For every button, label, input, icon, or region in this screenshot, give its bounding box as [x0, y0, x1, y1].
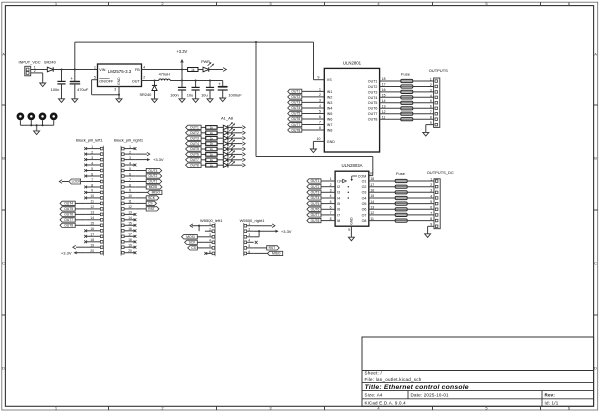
svg-text:9: 9 — [348, 228, 350, 232]
svg-text:Black_pill_left1: Black_pill_left1 — [76, 138, 103, 143]
svg-text:Sheet: /: Sheet: / — [365, 371, 383, 376]
svg-text:1: 1 — [330, 177, 332, 181]
svg-text:I6: I6 — [337, 208, 340, 212]
svg-text:4: 4 — [248, 239, 250, 243]
svg-text:7: 7 — [91, 178, 93, 182]
svg-text:1k: 1k — [210, 163, 214, 167]
svg-text:OUT: OUT — [132, 80, 141, 84]
svg-text:2: 2 — [209, 228, 211, 232]
svg-text:IN7: IN7 — [327, 123, 333, 127]
svg-text:OUT7: OUT7 — [311, 213, 320, 217]
svg-text:GND: GND — [117, 77, 121, 85]
svg-text:W5500_right1: W5500_right1 — [240, 218, 266, 223]
svg-text:100n: 100n — [170, 92, 179, 97]
svg-text:GND: GND — [349, 217, 353, 225]
svg-text:LOCK: LOCK — [72, 180, 82, 184]
svg-text:OUT8: OUT8 — [368, 118, 378, 122]
svg-text:Fuse: Fuse — [396, 171, 406, 176]
svg-text:1: 1 — [129, 145, 131, 149]
svg-text:8: 8 — [330, 217, 332, 221]
svg-text:1: 1 — [209, 222, 211, 226]
svg-text:1: 1 — [248, 222, 250, 226]
svg-text:18: 18 — [128, 238, 132, 242]
svg-text:2: 2 — [430, 83, 432, 87]
svg-text:17: 17 — [90, 233, 94, 237]
svg-text:6: 6 — [129, 172, 131, 176]
svg-text:2: 2 — [248, 228, 250, 232]
svg-text:4: 4 — [319, 104, 321, 108]
svg-text:1: 1 — [91, 145, 93, 149]
svg-text:8: 8 — [430, 116, 432, 120]
svg-text:10u: 10u — [187, 92, 194, 97]
svg-text:6: 6 — [330, 206, 332, 210]
svg-text:Fuse: Fuse — [401, 71, 411, 76]
svg-text:COM: COM — [358, 175, 366, 179]
svg-text:OUT1: OUT1 — [311, 179, 320, 183]
svg-text:O3: O3 — [362, 191, 367, 195]
svg-text:OUT6: OUT6 — [368, 107, 378, 111]
svg-text:VIN: VIN — [99, 68, 105, 72]
svg-text:I7: I7 — [337, 213, 340, 217]
svg-text:MOSI: MOSI — [186, 235, 195, 239]
svg-text:6: 6 — [430, 206, 432, 210]
svg-text:+3.3V: +3.3V — [153, 157, 164, 162]
svg-text:2: 2 — [330, 183, 332, 187]
svg-text:10u: 10u — [201, 92, 208, 97]
svg-text:Id: 1/1: Id: 1/1 — [545, 401, 559, 406]
svg-text:RST: RST — [269, 246, 276, 250]
svg-text:O7: O7 — [362, 213, 367, 217]
svg-text:8: 8 — [430, 217, 432, 221]
svg-text:OUT6: OUT6 — [190, 153, 199, 157]
svg-text:O2: O2 — [362, 185, 367, 189]
svg-text:3: 3 — [114, 88, 116, 92]
svg-text:6: 6 — [430, 105, 432, 109]
svg-text:SR240: SR240 — [139, 92, 152, 97]
svg-text:OUT2: OUT2 — [311, 185, 320, 189]
svg-text:6: 6 — [91, 172, 93, 176]
svg-text:I2: I2 — [337, 185, 340, 189]
svg-text:3: 3 — [91, 156, 93, 160]
svg-text:OUT8: OUT8 — [190, 164, 199, 168]
svg-text:100n: 100n — [51, 87, 60, 92]
svg-text:+3.3V: +3.3V — [176, 49, 187, 54]
svg-text:OUTPUTS: OUTPUTS — [429, 68, 448, 73]
svg-text:OUT3: OUT3 — [149, 169, 158, 173]
svg-text:C: C — [2, 260, 5, 265]
svg-text:1k: 1k — [210, 153, 214, 157]
svg-text:1k: 1k — [210, 158, 214, 162]
svg-text:15: 15 — [90, 222, 94, 226]
svg-text:2: 2 — [91, 150, 93, 154]
svg-text:15: 15 — [128, 222, 132, 226]
svg-text:4: 4 — [430, 94, 432, 98]
svg-text:6: 6 — [248, 250, 250, 254]
svg-text:8: 8 — [319, 126, 321, 130]
svg-text:O6: O6 — [362, 208, 367, 212]
svg-text:OUT1: OUT1 — [291, 90, 300, 94]
svg-text:5: 5 — [330, 200, 332, 204]
svg-text:17: 17 — [128, 233, 132, 237]
svg-text:4: 4 — [209, 239, 211, 243]
svg-text:OUT5: OUT5 — [291, 112, 300, 116]
svg-text:5: 5 — [319, 110, 321, 114]
svg-text:5: 5 — [430, 99, 432, 103]
svg-text:SCK: SCK — [148, 196, 156, 200]
svg-text:GND: GND — [327, 140, 335, 144]
svg-text:4: 4 — [129, 161, 131, 165]
svg-text:3: 3 — [248, 233, 250, 237]
svg-text:10: 10 — [128, 194, 132, 198]
svg-text:LM2575-3.3: LM2575-3.3 — [108, 69, 132, 74]
svg-text:1k: 1k — [210, 147, 214, 151]
svg-text:9: 9 — [91, 189, 93, 193]
svg-text:D: D — [2, 365, 5, 370]
svg-text:3: 3 — [319, 99, 321, 103]
svg-text:I4: I4 — [337, 196, 340, 200]
svg-text:18: 18 — [90, 238, 94, 242]
svg-text:I3: I3 — [337, 191, 340, 195]
svg-text:OUT5: OUT5 — [311, 202, 320, 206]
svg-text:14: 14 — [90, 216, 94, 220]
svg-text:OUT6: OUT6 — [311, 208, 320, 212]
svg-text:3: 3 — [430, 88, 432, 92]
svg-text:Rev:: Rev: — [545, 392, 556, 397]
svg-text:CS: CS — [148, 202, 153, 206]
svg-text:O1: O1 — [362, 179, 367, 183]
svg-text:OUT5: OUT5 — [64, 207, 73, 211]
svg-text:470uH: 470uH — [159, 72, 170, 76]
svg-text:OUT1: OUT1 — [190, 126, 199, 130]
svg-text:OUT4: OUT4 — [190, 142, 199, 146]
svg-text:OUT1: OUT1 — [368, 79, 378, 83]
svg-text:13: 13 — [90, 211, 94, 215]
svg-text:7: 7 — [430, 211, 432, 215]
svg-text:7: 7 — [430, 110, 432, 114]
svg-text:1: 1 — [94, 65, 96, 69]
svg-text:IN4: IN4 — [327, 106, 333, 110]
svg-text:Date: 2025-10-01: Date: 2025-10-01 — [411, 392, 450, 397]
svg-text:2: 2 — [319, 93, 321, 97]
svg-text:6: 6 — [319, 115, 321, 119]
svg-text:IN1: IN1 — [327, 90, 333, 94]
svg-text:2: 2 — [143, 75, 145, 79]
svg-text:OUT7: OUT7 — [291, 123, 300, 127]
svg-text:Black_pill_right1: Black_pill_right1 — [114, 138, 144, 143]
svg-text:OUT6: OUT6 — [291, 117, 300, 121]
svg-text:Title: Ethernet control consol: Title: Ethernet control console — [365, 384, 469, 391]
svg-text:5: 5 — [209, 244, 211, 248]
svg-text:7: 7 — [129, 178, 131, 182]
svg-text:3: 3 — [330, 189, 332, 193]
svg-text:IN2: IN2 — [327, 95, 333, 99]
svg-text:5: 5 — [91, 167, 93, 171]
svg-text:ULN2803A: ULN2803A — [341, 163, 362, 168]
svg-text:12: 12 — [128, 205, 132, 209]
svg-text:File: lan_outlet.kicad_sch: File: lan_outlet.kicad_sch — [365, 377, 422, 382]
svg-text:19: 19 — [90, 244, 94, 248]
svg-text:OUT8: OUT8 — [311, 219, 320, 223]
svg-text:Size: A4: Size: A4 — [365, 392, 383, 397]
svg-text:16: 16 — [90, 227, 94, 231]
svg-text:B: B — [594, 155, 597, 160]
svg-text:9: 9 — [318, 76, 320, 80]
svg-text:9: 9 — [129, 189, 131, 193]
svg-text:OUT7: OUT7 — [64, 218, 73, 222]
svg-text:KiCad E.D.A. 9.0.4: KiCad E.D.A. 9.0.4 — [365, 401, 407, 406]
svg-text:OUT5: OUT5 — [368, 101, 378, 105]
svg-text:IN5: IN5 — [327, 112, 333, 116]
svg-text:OUT4: OUT4 — [64, 202, 73, 206]
svg-text:IN6: IN6 — [327, 117, 333, 121]
svg-text:OUT2: OUT2 — [291, 95, 300, 99]
svg-text:OUT2: OUT2 — [368, 85, 378, 89]
svg-text:IN3: IN3 — [327, 101, 333, 105]
svg-text:I5: I5 — [337, 202, 340, 206]
svg-text:O8: O8 — [362, 219, 367, 223]
svg-text:W5500_left1: W5500_left1 — [200, 218, 223, 223]
svg-text:O5: O5 — [362, 202, 367, 206]
svg-text:3: 3 — [209, 233, 211, 237]
svg-text:+: + — [218, 82, 221, 87]
svg-text:B: B — [2, 155, 5, 160]
svg-text:MISO: MISO — [152, 191, 161, 195]
svg-text:1000uF: 1000uF — [228, 92, 242, 97]
svg-text:OUT1: OUT1 — [149, 180, 158, 184]
svg-text:VS: VS — [327, 78, 332, 82]
svg-text:A1_A8: A1_A8 — [221, 116, 234, 121]
svg-text:OUT8: OUT8 — [291, 128, 300, 132]
svg-text:OUT5: OUT5 — [190, 147, 199, 151]
svg-text:5: 5 — [430, 200, 432, 204]
svg-text:D: D — [594, 365, 597, 370]
svg-text:10: 10 — [369, 171, 373, 175]
svg-text:6: 6 — [209, 250, 211, 254]
svg-text:OUT7: OUT7 — [190, 158, 199, 162]
svg-text:7: 7 — [330, 211, 332, 215]
svg-text:11: 11 — [128, 200, 132, 204]
svg-text:12: 12 — [90, 205, 94, 209]
svg-text:470uF: 470uF — [77, 87, 89, 92]
svg-text:A: A — [2, 51, 5, 56]
svg-text:16: 16 — [128, 227, 132, 231]
svg-text:RST: RST — [148, 207, 155, 211]
svg-text:OUT4: OUT4 — [368, 96, 378, 100]
svg-text:OUT4: OUT4 — [291, 106, 300, 110]
svg-text:+3.3V: +3.3V — [281, 229, 292, 234]
svg-text:A: A — [594, 51, 597, 56]
svg-text:7: 7 — [319, 121, 321, 125]
svg-text:+3.3V: +3.3V — [61, 250, 72, 255]
svg-text:2: 2 — [34, 69, 36, 73]
svg-text:13: 13 — [128, 211, 132, 215]
svg-text:SCK: SCK — [189, 241, 197, 245]
svg-text:5: 5 — [94, 76, 96, 80]
svg-text:8: 8 — [129, 183, 131, 187]
svg-text:OUT3: OUT3 — [368, 90, 378, 94]
svg-text:11: 11 — [91, 200, 95, 204]
svg-text:20: 20 — [90, 249, 94, 253]
svg-text:1: 1 — [319, 88, 321, 92]
svg-text:2: 2 — [430, 183, 432, 187]
svg-text:20: 20 — [128, 249, 132, 253]
svg-text:2: 2 — [129, 150, 131, 154]
svg-text:1k: 1k — [191, 68, 195, 72]
svg-text:1k: 1k — [210, 142, 214, 146]
svg-text:+: + — [70, 76, 73, 81]
svg-text:OUT6: OUT6 — [64, 213, 73, 217]
svg-text:C: C — [594, 260, 597, 265]
svg-text:I1: I1 — [337, 179, 340, 183]
svg-text:OUTPUTS_DC: OUTPUTS_DC — [427, 170, 454, 175]
svg-text:5: 5 — [248, 244, 250, 248]
svg-text:1k: 1k — [210, 136, 214, 140]
svg-text:ULN2801: ULN2801 — [343, 61, 362, 66]
svg-text:SR240: SR240 — [44, 59, 57, 64]
svg-text:3: 3 — [129, 156, 131, 160]
svg-text:MOSI: MOSI — [149, 185, 158, 189]
svg-text:19: 19 — [128, 244, 132, 248]
svg-text:1: 1 — [430, 177, 432, 181]
svg-text:OUT7: OUT7 — [368, 112, 378, 116]
svg-text:CS: CS — [191, 246, 196, 250]
svg-text:IN8: IN8 — [327, 128, 333, 132]
svg-text:OUT2: OUT2 — [149, 174, 158, 178]
svg-text:PWR: PWR — [201, 60, 210, 64]
svg-text:I8: I8 — [337, 219, 340, 223]
svg-text:OUT3: OUT3 — [190, 137, 199, 141]
svg-text:4: 4 — [143, 65, 145, 69]
svg-text:4: 4 — [91, 161, 93, 165]
svg-text:OUT8: OUT8 — [64, 224, 73, 228]
svg-text:O4: O4 — [362, 196, 367, 200]
svg-text:OUT4: OUT4 — [311, 196, 320, 200]
svg-text:10: 10 — [317, 137, 321, 141]
svg-text:OUT3: OUT3 — [291, 101, 300, 105]
svg-text:ON/OFF: ON/OFF — [99, 80, 114, 84]
svg-text:1k: 1k — [210, 126, 214, 130]
svg-text:MISO: MISO — [272, 252, 281, 256]
svg-text:1k: 1k — [210, 131, 214, 135]
svg-text:3: 3 — [430, 189, 432, 193]
svg-text:14: 14 — [128, 216, 132, 220]
svg-text:OUT3: OUT3 — [311, 191, 320, 195]
svg-text:4: 4 — [330, 194, 332, 198]
svg-text:10: 10 — [90, 194, 94, 198]
svg-text:1: 1 — [430, 77, 432, 81]
svg-text:8: 8 — [91, 183, 93, 187]
svg-text:5: 5 — [129, 167, 131, 171]
svg-text:FB: FB — [135, 68, 140, 72]
svg-text:OUT2: OUT2 — [190, 131, 199, 135]
svg-text:4: 4 — [430, 194, 432, 198]
svg-text:INPUT_VDC: INPUT_VDC — [19, 59, 41, 64]
